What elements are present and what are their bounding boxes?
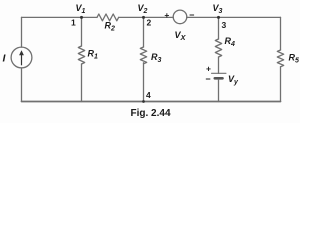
- svg-text:+: +: [206, 64, 211, 74]
- svg-text:2: 2: [147, 18, 152, 28]
- svg-text:+: +: [164, 10, 169, 20]
- svg-text:−: −: [189, 10, 194, 20]
- svg-text:Fig. 2.44: Fig. 2.44: [130, 108, 170, 119]
- svg-text:−: −: [205, 74, 210, 84]
- svg-text:4: 4: [146, 90, 151, 100]
- svg-text:3: 3: [222, 20, 227, 30]
- svg-text:1: 1: [71, 18, 76, 28]
